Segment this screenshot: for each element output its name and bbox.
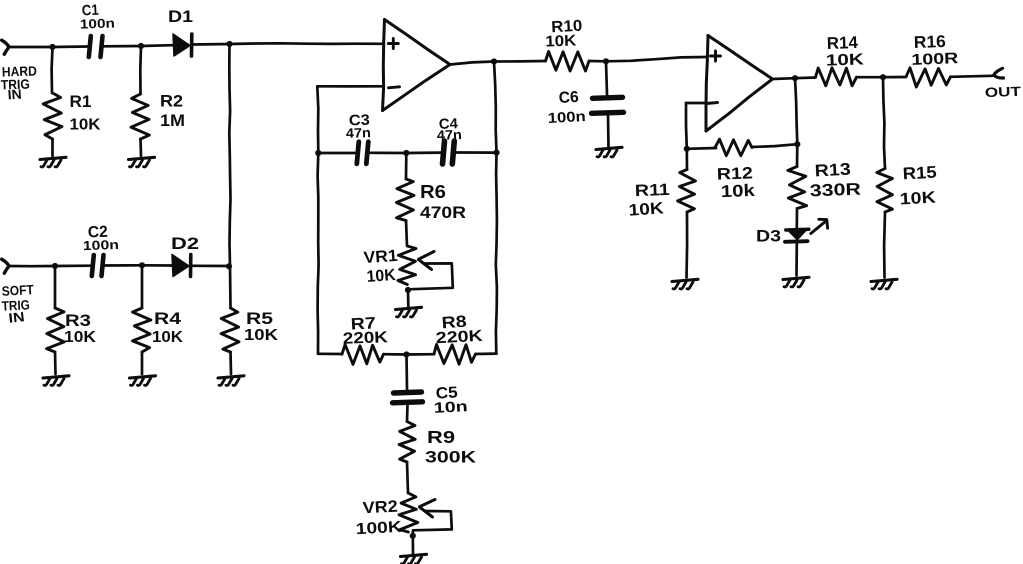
wire [407,290,410,306]
junction [226,41,232,47]
wire [141,352,144,374]
wire [685,103,688,149]
label D1 [168,7,193,26]
svg-text:47n: 47n [437,127,463,143]
wire [687,147,716,151]
wire [951,76,993,77]
resistor R8 [434,345,476,365]
svg-text:R2: R2 [160,93,183,111]
svg-text:R1: R1 [70,93,92,111]
label R3 10K [64,311,96,346]
junction [491,58,497,64]
LED D3 [785,219,828,242]
junction [403,351,409,357]
wire [773,77,796,81]
wire [141,44,173,47]
wire [54,266,57,308]
ground [596,147,622,157]
label VR1 10K [363,247,398,286]
op-amp U2 plus input [711,51,721,61]
svg-text:D3: D3 [756,228,781,246]
wire [606,57,706,61]
svg-text:R11: R11 [635,181,671,200]
resistor R15 [877,169,893,213]
wire [229,352,232,374]
wire [9,265,55,268]
label C6 100n [547,89,586,127]
wire [317,86,318,153]
resistor R16 [906,68,951,87]
wire [142,264,172,267]
label R8 220K [435,313,483,348]
wire [607,115,610,147]
svg-text:VR1: VR1 [363,247,398,267]
wire [795,209,798,230]
potentiometer VR2 [399,493,452,532]
diode D2 [172,255,191,277]
wire [318,352,342,355]
output terminal OUT [994,68,1004,78]
capacitor C4 [443,141,455,164]
ground [43,376,69,386]
wire [139,139,142,156]
svg-text:IN: IN [8,309,25,326]
input terminal HARD TRIG IN [2,40,9,54]
capacitor C6 [592,97,624,113]
wire [192,264,231,267]
junction [603,58,609,64]
wire [405,153,408,179]
svg-text:100n: 100n [83,237,120,253]
resistor R14 [816,68,857,86]
wire [407,462,408,493]
label R10 10K [545,18,583,51]
wire [384,353,407,356]
ground [672,279,698,289]
label R12 10K [717,164,756,201]
svg-text:C6: C6 [558,89,579,107]
wire [405,355,408,390]
junction [49,44,55,50]
wire [606,61,607,94]
svg-text:R9: R9 [427,427,455,447]
capacitor C1 [89,36,103,57]
wire [9,46,53,49]
svg-text:10K: 10K [64,329,96,346]
ground [783,277,809,287]
label R2 1M [160,93,185,131]
wire [685,212,688,278]
svg-text:R14: R14 [826,33,858,53]
svg-text:220K: 220K [343,329,389,348]
junction [138,43,144,49]
resistor R7 [342,345,384,365]
op-amp U1 minus input [389,87,400,88]
junction [410,533,416,539]
svg-text:R13: R13 [814,160,851,181]
ground [129,157,155,167]
ground [871,279,897,289]
svg-text:10k: 10k [720,181,755,201]
ground [130,376,156,386]
wire [857,76,884,79]
label R4 10K [152,309,183,346]
label OUT [985,84,1022,100]
junction [139,262,145,268]
svg-text:D2: D2 [171,234,199,253]
resistor R3 [47,308,65,352]
svg-text:100K: 100K [355,519,402,538]
svg-text:10K: 10K [899,189,936,209]
svg-text:47n: 47n [346,125,372,141]
resistor R10 [546,52,590,72]
wire [317,85,383,88]
svg-text:R6: R6 [420,182,446,202]
label R11 10K [628,181,670,220]
wire [494,62,497,153]
svg-text:R3: R3 [65,311,91,330]
label C4 47n [437,116,463,143]
junction [684,146,690,152]
svg-text:SOFT: SOFT [1,282,34,299]
op-amp U2 [706,36,773,132]
junction [315,150,321,156]
wire [686,102,707,105]
svg-text:220K: 220K [435,328,483,347]
svg-text:R16: R16 [913,32,946,52]
wire [50,47,54,93]
junction [403,150,409,156]
svg-text:10K: 10K [366,266,396,286]
label D3 [756,228,781,246]
ground [401,554,427,564]
label R5 10K [244,309,279,344]
wire [318,152,356,155]
potentiometer VR1 [398,246,453,289]
junction [792,75,798,81]
wire [105,264,143,267]
diode D1 [173,34,192,56]
resistor R11 [678,170,696,213]
wire [53,45,89,48]
junction [880,74,886,80]
wire [456,151,497,154]
wire [406,221,407,247]
label C5 10n [433,384,468,416]
ground [218,376,244,386]
wire [496,153,497,354]
wire [883,212,887,278]
junction [493,150,499,156]
wire [795,76,816,79]
label C3 47n [346,112,372,141]
wire [230,42,384,45]
wire [229,44,230,266]
svg-text:330R: 330R [809,180,861,201]
wire [476,352,497,355]
wire [193,43,231,46]
wire [407,353,435,356]
svg-text:VR2: VR2 [362,498,398,518]
resistor R4 [133,308,151,352]
svg-text:100n: 100n [547,109,586,127]
svg-text:10K: 10K [545,32,577,50]
label R7 220K [343,314,389,347]
label R13 330R [809,160,861,201]
wire [796,144,799,166]
resistor R13 [788,167,807,209]
wire [411,532,414,554]
label R15 10K [899,163,937,209]
resistor R5 [221,308,239,352]
wire [450,62,494,65]
svg-text:10K: 10K [152,329,183,346]
resistor R12 [715,139,752,156]
label R16 100R [911,32,959,69]
svg-text:1M: 1M [160,112,185,130]
capacitor C3 [357,142,369,164]
op-amp U1 plus input [388,39,398,49]
wire [795,243,798,276]
wire [51,139,54,156]
label D2 [171,234,199,253]
label C1 100n [80,2,116,32]
junction [405,287,411,293]
label C2 100n [83,224,120,253]
wire [752,144,798,147]
label VR2 100K [355,498,402,539]
ground [396,307,422,317]
wire [406,405,409,422]
label R6 470R [420,182,466,222]
resistor R2 [131,94,149,139]
op-amp U2 minus input [707,103,718,104]
resistor R6 [396,179,414,221]
wire [370,151,407,154]
wire [589,60,606,63]
svg-text:D1: D1 [168,7,193,26]
svg-text:R15: R15 [902,163,937,184]
svg-text:100R: 100R [911,50,959,69]
svg-text:470R: 470R [420,203,466,222]
wire [883,77,885,168]
wire [139,46,142,94]
label R9 300K [425,427,477,467]
wire [318,153,319,354]
resistor R9 [399,422,415,463]
wire [55,264,91,267]
wire [685,149,688,170]
junction [226,263,232,269]
label R1 10K [70,93,101,134]
svg-text:300K: 300K [425,448,477,467]
wire [141,265,144,308]
svg-text:R5: R5 [246,309,273,328]
svg-text:IN: IN [7,87,22,103]
label HARD TRIG IN [1,63,38,102]
svg-text:OUT: OUT [985,84,1022,100]
junction [52,263,58,269]
label R14 10K [826,33,865,70]
svg-text:10K: 10K [70,117,101,134]
wire [229,266,232,308]
wire [883,76,906,79]
wire [795,78,797,144]
svg-text:10K: 10K [244,327,279,344]
svg-text:R4: R4 [154,309,182,328]
op-amp U1 [383,20,451,111]
capacitor C5 [393,392,423,403]
input terminal SOFT TRIG IN [2,259,9,273]
wire [494,60,546,63]
wire [54,352,57,374]
svg-text:10n: 10n [433,398,468,417]
wire [406,151,441,154]
junction [794,141,800,147]
svg-text:10K: 10K [826,51,865,69]
svg-text:10K: 10K [628,199,664,219]
wire [104,45,142,48]
svg-text:100n: 100n [80,15,116,31]
resistor R1 [43,93,62,139]
label SOFT TRIG IN [1,282,34,326]
capacitor C2 [92,255,104,276]
ground [40,157,66,167]
